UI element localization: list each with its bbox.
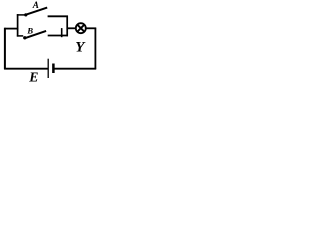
- wire: right bracket to lamp: [67, 27, 76, 29]
- switch A blade: [27, 8, 48, 15]
- switch B pivot dot: [23, 36, 26, 39]
- wire: outer loop right vertical: [94, 28, 96, 70]
- wire: switch B fixed contact line: [48, 35, 68, 37]
- wire: outer loop bottom right segment from battery: [54, 68, 97, 70]
- lamp Y cross stroke 1: [77, 25, 84, 32]
- wire: switch B left lead: [17, 35, 23, 37]
- switch B blade: [26, 31, 46, 38]
- battery E long thin plate: [47, 59, 49, 78]
- switch A pivot dot: [24, 13, 27, 16]
- lamp Y cross stroke 2: [77, 25, 84, 32]
- node: left bracket vertical of parallel branches: [17, 14, 19, 36]
- lamp Y circle: [76, 23, 86, 33]
- wire: lamp to right vertical: [86, 27, 96, 29]
- wire: switch A fixed contact line: [48, 15, 68, 17]
- svg-text:E: E: [28, 69, 38, 83]
- wire: switch A left lead: [17, 14, 25, 16]
- switch B fixed contact tick: [61, 28, 63, 37]
- svg-text:Y: Y: [75, 39, 86, 55]
- node: right bracket vertical of parallel branches: [66, 16, 68, 37]
- wire: left stub from outer loop to left bracket: [4, 28, 18, 30]
- wire: outer loop bottom left segment to battery: [4, 68, 48, 70]
- svg-text:B: B: [26, 25, 33, 35]
- battery E short thick plate: [52, 64, 55, 74]
- wire: outer loop left vertical: [4, 28, 6, 70]
- svg-text:A: A: [32, 0, 39, 10]
